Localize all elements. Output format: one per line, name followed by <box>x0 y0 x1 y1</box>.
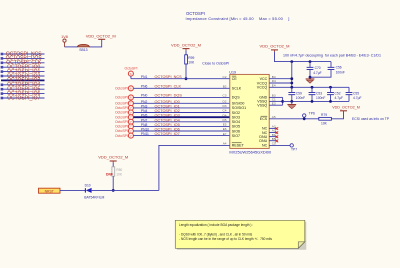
svg-text:- NCS length can be in the ran: - NCS length can be in the range of up t… <box>179 237 272 241</box>
svg-text:C70: C70 <box>315 66 321 70</box>
ferrite bead SB13 <box>77 44 89 52</box>
ground symbol (bottom) <box>287 101 296 108</box>
wire VCC pin stub <box>269 78 292 80</box>
svg-text:C52: C52 <box>335 92 341 96</box>
svg-text:CE: CE <box>232 77 238 81</box>
svg-text:VDD_OCTO2_M: VDD_OCTO2_M <box>260 43 290 48</box>
note box length equalization <box>175 220 306 250</box>
port OctoSPI PN2 <box>115 101 133 106</box>
svg-text:C53: C53 <box>316 92 322 96</box>
svg-text:MX25UW25645GXDI00: MX25UW25645GXDI00 <box>229 149 272 154</box>
svg-text:C59: C59 <box>296 92 302 96</box>
svg-text:E6: E6 <box>223 127 227 131</box>
wire OCTOSPI_IO2 to U19 <box>133 112 229 114</box>
wire ground rail <box>283 100 349 102</box>
port OctoSPI PN5 <box>115 115 133 120</box>
port OctoSPI PN6 <box>115 86 133 91</box>
left bus: wire OCTOSPI_IO7 <box>1 97 45 100</box>
wire R99 to NCS net <box>185 64 187 79</box>
svg-text:OCTOSPI_IO5: OCTOSPI_IO5 <box>155 123 180 127</box>
svg-text:4.7µF: 4.7µF <box>353 96 362 100</box>
svg-text:VCCQ: VCCQ <box>257 86 268 90</box>
left bus: wire OCTOSPI_DQS <box>1 57 45 60</box>
port OctoSPI PN7 <box>115 119 133 124</box>
wire OCTOSPI_IO7 to U19 <box>133 135 229 137</box>
junction R80/NRST <box>112 189 115 192</box>
svg-text:B2: B2 <box>223 85 227 89</box>
power symbol VDD_OCTO2_M (ECS pull-up) <box>332 105 360 110</box>
svg-text:OCTOSPI_IO6: OCTOSPI_IO6 <box>155 128 180 132</box>
junction rail/VCC <box>290 60 293 63</box>
power symbol VDD_OCTO2_M (top of decoupling) <box>260 43 290 52</box>
wire SB13 to VDD_OCTO2_M <box>90 39 102 47</box>
svg-text:PN2: PN2 <box>141 100 148 104</box>
junction rail/C70 <box>309 60 312 63</box>
wire VCCQ pin stub <box>269 82 292 84</box>
left bus: wire OCTOSPI_IO0 <box>1 66 45 69</box>
svg-text:R80: R80 <box>116 168 122 172</box>
wire RESET net <box>159 145 230 190</box>
left bus: wire OCTOSPI_IO3 (highlighted) <box>1 79 45 81</box>
svg-text:VDD_OCTO2_M: VDD_OCTO2_M <box>332 105 360 109</box>
junction VCCQ <box>290 82 293 85</box>
wire NC3 to TP7 <box>269 144 290 146</box>
wire 1V8 to SB13 <box>65 46 78 48</box>
left bus: wire OCTOSPI_IO4 <box>1 84 45 87</box>
junction R99/NCS <box>185 77 188 80</box>
svg-text:C4: C4 <box>223 109 227 113</box>
svg-text:R79: R79 <box>321 113 327 117</box>
wire OCTOSPI_IO3 to U19 (highlighted) <box>133 116 229 118</box>
svg-text:OCTOSPI_IO0: OCTOSPI_IO0 <box>155 100 180 104</box>
U19 pin CE name <box>232 76 238 81</box>
ground symbol (top) <box>306 77 315 83</box>
svg-text:10K: 10K <box>188 60 195 64</box>
svg-text:D5: D5 <box>223 118 227 122</box>
svg-text:OCTOSPI_IO2: OCTOSPI_IO2 <box>155 109 180 113</box>
port OctoSPI PN0 <box>115 95 133 100</box>
svg-text:OCTOSPI_IO1: OCTOSPI_IO1 <box>155 104 180 108</box>
port OctoSPI PN8 <box>115 124 133 129</box>
svg-text:PN7: PN7 <box>141 118 148 122</box>
wire OCTOSPI_CLK to U19 <box>133 87 229 89</box>
svg-text:ECS: ECS <box>260 117 268 121</box>
capacitor C70 <box>307 62 322 79</box>
svg-text:U19: U19 <box>229 70 236 74</box>
wire VDD to R99 <box>185 51 187 55</box>
diode D10 BAT54KFILM <box>84 184 104 200</box>
left bus: wire OCTOSPI_CLK <box>1 62 45 65</box>
svg-text:C55: C55 <box>353 92 359 96</box>
IC U19 body <box>229 70 272 154</box>
left bus: wire OCTOSPI_IO5 <box>1 88 45 91</box>
junction rail2 C52 <box>329 86 332 89</box>
svg-text:OctoSPI: OctoSPI <box>115 129 128 133</box>
no-connect X DNU1 <box>275 135 278 138</box>
wire GND pin stub <box>269 96 282 98</box>
junction C70/C56 ground <box>309 76 312 79</box>
svg-text:PN5: PN5 <box>141 114 148 118</box>
U19 pin ECS name <box>260 116 268 121</box>
no-connect X NC1 <box>275 127 278 130</box>
svg-text:NC: NC <box>262 144 268 148</box>
svg-text:VDD_OCTO2_M: VDD_OCTO2_M <box>86 34 116 39</box>
port NRST <box>39 188 61 193</box>
power symbol VDD_OCTO2_M (R80 pull-up) <box>98 155 128 163</box>
svg-text:SIO3: SIO3 <box>232 116 240 120</box>
svg-text:100nF: 100nF <box>296 96 305 100</box>
svg-text:100nF: 100nF <box>316 96 325 100</box>
wire DNU1 stub <box>269 136 276 138</box>
svg-text:PN1: PN1 <box>141 75 148 79</box>
wire NRST to D10 <box>60 189 85 191</box>
left bus: wire OCTOSPI_IO6 <box>1 92 45 95</box>
svg-text:SIO2: SIO2 <box>232 111 240 115</box>
wire ECS net <box>269 118 319 120</box>
no-connect X NC2 <box>275 131 278 134</box>
capacitor C56 <box>310 62 345 78</box>
wire VDD rail top <box>275 52 332 62</box>
svg-text:PN4: PN4 <box>141 109 148 113</box>
svg-text:10K: 10K <box>116 173 123 177</box>
wire OCTOSPI_IO6 to U19 <box>133 130 229 132</box>
svg-text:100 nF/4.7µF decoupling for e: 100 nF/4.7µF decoupling for each pair B4… <box>283 54 381 58</box>
junction VSS bracket <box>281 100 284 103</box>
svg-text:C2: C2 <box>223 75 227 79</box>
wire VSSQ2 pin stub <box>269 104 282 106</box>
resistor R80 (DNF) <box>106 167 123 177</box>
junction gnd rail C59 <box>290 100 293 103</box>
svg-text:OCTOSPI_CLK: OCTOSPI_CLK <box>155 85 182 89</box>
junction gnd rail C52 <box>329 100 332 103</box>
wire VDD to R80 <box>112 163 114 167</box>
left bus: wire OCTOSPI_IO2 <box>1 75 45 78</box>
svg-text:D3: D3 <box>223 104 227 108</box>
svg-text:OctoSPI: OctoSPI <box>115 134 128 138</box>
power symbol VDD_OCTO2_M (above R99) <box>171 42 201 50</box>
svg-text:OctoSPI: OctoSPI <box>115 102 128 106</box>
svg-text:SI/SIO0: SI/SIO0 <box>232 102 245 106</box>
wire OCTOSPI_NCS to U19 <box>131 78 230 80</box>
svg-text:SIO4: SIO4 <box>232 120 240 124</box>
svg-text:PN0: PN0 <box>141 94 148 98</box>
svg-text:NRST: NRST <box>45 190 54 194</box>
wire OCTOSPI_IO4 to U19 <box>133 121 229 123</box>
port OctoSPI PN3 <box>115 105 133 110</box>
svg-text:OCTOSPI_IO7: OCTOSPI_IO7 <box>7 95 40 101</box>
wire VCC vertical <box>291 62 293 88</box>
svg-text:PN6: PN6 <box>141 85 148 89</box>
svg-text:Impedance Constraint [Min = 45: Impedance Constraint [Min = 45.00 Max = … <box>186 16 290 21</box>
svg-text:OCTOSPI_NCS: OCTOSPI_NCS <box>155 75 183 79</box>
svg-text:DQS: DQS <box>232 96 240 100</box>
svg-text:OCTOSPI_IO4: OCTOSPI_IO4 <box>155 118 180 122</box>
svg-text:BAT54KFILM: BAT54KFILM <box>84 195 104 199</box>
resistor R99 <box>185 55 195 65</box>
power symbol VDD_OCTO2_M (top-left) <box>86 34 116 40</box>
svg-text:Close to OctoSPI: Close to OctoSPI <box>202 61 229 65</box>
wire DNU2 stub <box>269 140 276 142</box>
capacitor C55 <box>346 87 362 101</box>
svg-text:OctoSPI: OctoSPI <box>115 96 128 100</box>
U19 pin RESET name <box>232 143 245 148</box>
svg-text:C56: C56 <box>336 66 342 70</box>
svg-text:PN3: PN3 <box>141 104 148 108</box>
svg-text:TP6: TP6 <box>309 112 315 116</box>
svg-text:VSSQ: VSSQ <box>257 104 267 108</box>
power port 1V8 <box>61 35 68 47</box>
junction VCC <box>290 77 293 80</box>
svg-text:OCTOSPI_DQS: OCTOSPI_DQS <box>155 94 183 98</box>
svg-text:D10: D10 <box>85 184 91 188</box>
svg-text:OctoSPI: OctoSPI <box>115 87 128 91</box>
svg-text:D2: D2 <box>223 100 227 104</box>
svg-text:RESET: RESET <box>232 144 245 148</box>
svg-text:VDD_OCTO2_M: VDD_OCTO2_M <box>98 155 128 160</box>
wire R80 to NRST net <box>112 176 114 190</box>
svg-text:OCTOSPI_IO7: OCTOSPI_IO7 <box>155 132 180 136</box>
svg-text:Length equalization ( include: Length equalization ( include BGA packag… <box>179 223 253 227</box>
svg-text:4.7µF: 4.7µF <box>313 71 322 75</box>
capacitor C52 <box>327 87 343 101</box>
svg-text:SIO6: SIO6 <box>232 129 240 133</box>
svg-text:D4: D4 <box>223 113 227 117</box>
svg-text:SB13: SB13 <box>79 48 87 52</box>
svg-text:10K: 10K <box>321 121 328 125</box>
capacitor C59 <box>288 87 305 101</box>
wire VCCQ rail (E4) <box>269 86 349 88</box>
junction gnd rail C53 <box>311 100 314 103</box>
svg-text:TP7: TP7 <box>291 147 297 151</box>
svg-text:SIO5: SIO5 <box>232 125 240 129</box>
wire VSS bracket vertical <box>282 97 284 105</box>
svg-text:4.7µF: 4.7µF <box>335 96 344 100</box>
svg-text:OctoSPI: OctoSPI <box>115 106 128 110</box>
svg-text:PN8: PN8 <box>141 123 148 127</box>
no-connect X DNU2 <box>275 140 278 143</box>
svg-text:PN11: PN11 <box>141 132 149 136</box>
svg-text:SIO7: SIO7 <box>232 134 240 138</box>
svg-text:OctoSPI: OctoSPI <box>115 125 128 129</box>
svg-text:OctoSPI: OctoSPI <box>115 115 128 119</box>
svg-text:OCTOSPI_IO3: OCTOSPI_IO3 <box>155 114 180 118</box>
svg-text:100nF: 100nF <box>336 70 345 74</box>
capacitor C53 <box>309 87 326 101</box>
junction rail2 x291.8 <box>290 86 293 89</box>
left bus: wire OCTOSPI_IO1 <box>1 70 45 73</box>
svg-text:OctoSPI: OctoSPI <box>115 120 128 124</box>
wire NC1 stub <box>269 127 276 129</box>
wire OCTOSPI_IO1 to U19 <box>133 107 229 109</box>
svg-text:DNU: DNU <box>259 139 267 143</box>
junction rail2 C53 <box>311 86 314 89</box>
test point TP6 <box>303 112 316 119</box>
svg-text:OctoSPI: OctoSPI <box>124 67 137 71</box>
resistor R79 <box>319 113 332 125</box>
port OctoSPI PN10 <box>115 129 133 134</box>
svg-text:E5: E5 <box>223 123 227 127</box>
svg-text:SO/SIO1: SO/SIO1 <box>232 106 246 110</box>
svg-text:DNF: DNF <box>106 172 113 176</box>
wire OCTOSPI_DQS to U19 <box>133 96 229 98</box>
wire R79 to VDD <box>331 111 343 119</box>
wire VSSQ pin stub <box>269 100 282 102</box>
port OctoSPI PN4 <box>115 110 133 115</box>
left bus: wire OCTOSPI_NCS <box>1 53 45 56</box>
svg-text:E7: E7 <box>223 132 227 136</box>
test point TP7 <box>290 144 297 152</box>
wire OCTOSPI_IO5 to U19 <box>133 125 229 127</box>
junction ECS/TP6 <box>303 117 306 120</box>
svg-text:ECS/ used as info on TP: ECS/ used as info on TP <box>352 117 390 121</box>
wire OCTOSPI_IO0 to U19 <box>133 102 229 104</box>
wire NC2 stub <box>269 132 276 134</box>
port OctoSPI PN1 <box>124 67 137 79</box>
port OctoSPI PN11 <box>115 133 133 138</box>
svg-text:SCLK: SCLK <box>232 87 242 91</box>
wire D10 to RESET net <box>92 189 159 191</box>
svg-text:VDD_OCTO2_M: VDD_OCTO2_M <box>171 42 201 47</box>
svg-text:C3: C3 <box>223 94 227 98</box>
svg-text:PN10: PN10 <box>141 128 149 132</box>
svg-text:OctoSPI: OctoSPI <box>115 111 128 115</box>
svg-text:1V8: 1V8 <box>61 35 68 39</box>
